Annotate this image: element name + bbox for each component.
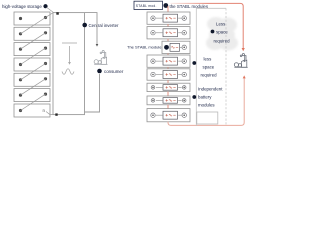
series wire B6 to B5 — [21, 79, 46, 95]
STABL module M1 — [147, 12, 190, 24]
junction dot bottom — [55, 113, 57, 115]
factory icon (consumer right) — [234, 54, 247, 68]
battery module B5 — [14, 73, 50, 86]
STABL module M8 — [147, 109, 190, 122]
wire: consumer return to inverter — [85, 74, 100, 112]
battery module B7 — [14, 104, 50, 117]
svg-text:Less: Less — [216, 22, 226, 27]
label: less space required — [192, 57, 217, 78]
central inverter box U1 — [53, 13, 85, 115]
svg-text:consumer: consumer — [104, 69, 124, 74]
svg-text:required: required — [201, 73, 218, 78]
AC sine symbol — [62, 69, 74, 75]
empty module slot — [197, 112, 218, 124]
battery module B2 — [14, 27, 50, 40]
svg-text:The STABL module: The STABL module — [127, 44, 162, 49]
red DC link M1-M2 — [167, 24, 169, 26]
red DC link above M1 — [167, 6, 169, 12]
label: Independent battery modules — [192, 87, 223, 108]
battery module B4 — [14, 58, 50, 71]
red DC link M6-M7 — [167, 92, 169, 96]
red DC link M2-M3 — [167, 39, 169, 41]
svg-text:space: space — [216, 30, 228, 35]
conversion arrow — [68, 46, 71, 65]
series wire B2 to B1 — [21, 18, 46, 34]
red wire: top to consumer — [171, 3, 245, 51]
STABL module M3 (labelled, short) — [162, 41, 190, 53]
cloud highlight — [0, 0, 1, 1]
red DC link M5-M6 — [167, 80, 169, 83]
svg-text:space: space — [203, 65, 215, 70]
svg-text:battery: battery — [198, 95, 212, 100]
label: consumer — [97, 69, 124, 74]
svg-text:Central inverter: Central inverter — [89, 23, 120, 28]
box: STABL legend — [134, 1, 163, 9]
cloud label: Less space required — [211, 22, 231, 44]
red DC link M3-M4 — [167, 54, 169, 56]
svg-text:STABL mod.: STABL mod. — [136, 4, 157, 8]
red wire: bottom to consumer — [168, 75, 246, 125]
STABL module M5 — [147, 69, 190, 80]
red DC link M4-M5 — [167, 67, 169, 69]
svg-text:less: less — [204, 57, 213, 62]
svg-text:modules: modules — [198, 103, 215, 108]
panel: space footprint (left+top) — [196, 8, 226, 126]
battery module B1 — [14, 12, 50, 25]
series wire B1 to inverter top — [46, 13, 54, 18]
series wire B4 to B3 — [21, 48, 46, 64]
series wire B3 to B2 — [21, 33, 46, 49]
junction dot top — [56, 12, 59, 15]
battery module B6 — [14, 89, 50, 102]
STABL module M7 — [147, 96, 190, 105]
label: the STABL modules (top) — [163, 3, 208, 9]
label: Central inverter — [82, 23, 119, 28]
wire: inverter to consumer — [85, 13, 99, 47]
red DC link M7-M8 — [167, 105, 169, 109]
series wire B5 to B4 — [21, 64, 46, 80]
svg-text:required: required — [214, 39, 231, 44]
STABL module M4 — [147, 55, 190, 67]
svg-text:Independent: Independent — [198, 87, 223, 92]
panel dashed right edge — [225, 8, 227, 126]
DC bar symbol — [62, 42, 77, 44]
factory icon (consumer left) — [94, 51, 107, 65]
series wire B7 to B6 — [21, 94, 46, 110]
label: high-voltage storage — [2, 4, 54, 13]
wire B7 to inverter bottom — [46, 112, 53, 115]
svg-text:high-voltage storage: high-voltage storage — [2, 4, 42, 9]
STABL module M6 — [147, 83, 190, 91]
STABL module M2 — [147, 27, 190, 39]
battery module B3 — [14, 43, 50, 56]
